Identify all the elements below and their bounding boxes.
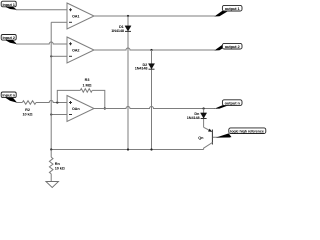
node OA2 - on bus: [50, 55, 52, 57]
node D2 bottom: [150, 148, 152, 150]
wire OA2 - stub: [51, 55, 67, 57]
wire input1 to OA1 +: [16, 9, 67, 11]
resistor Rn 10 k: [49, 150, 64, 182]
svg-text:10 kΩ: 10 kΩ: [23, 113, 33, 117]
resistor R3 1 M feedback: [57, 78, 105, 108]
svg-text:R2: R2: [25, 108, 30, 112]
node D1 bottom: [127, 148, 129, 150]
diode D1 1N4148: [111, 16, 131, 150]
svg-text:1N4148: 1N4148: [111, 29, 124, 33]
svg-text:OA2: OA2: [72, 49, 80, 53]
transistor Qn: [198, 127, 230, 149]
diode Dn 1N4148: [187, 109, 207, 128]
callout logic high reference: [216, 128, 266, 138]
svg-text:input n: input n: [2, 93, 15, 98]
node D1 top: [127, 15, 129, 17]
bottom bus wire: [51, 149, 203, 151]
node D2 top: [150, 49, 152, 51]
wire input n to R2: [16, 102, 22, 104]
svg-text:output n: output n: [225, 101, 241, 106]
callout input n: [1, 92, 17, 103]
svg-text:Rn: Rn: [55, 162, 61, 166]
callout output 2: [214, 43, 242, 50]
wire OA2 output to output 2 (hop over D1 line): [94, 48, 215, 50]
svg-text:output 1: output 1: [225, 6, 241, 11]
op-amp OA1: [67, 3, 94, 29]
svg-text:R3: R3: [85, 78, 90, 82]
svg-text:1N4148: 1N4148: [187, 116, 200, 120]
svg-text:1N4148: 1N4148: [135, 67, 148, 71]
wire OA1 output to output 1: [94, 15, 215, 17]
bus (inverting inputs common node): [50, 22, 52, 149]
diode D2 1N4148: [135, 50, 155, 150]
node feedback junction on + wire: [56, 101, 58, 103]
svg-text:logic high reference: logic high reference: [230, 129, 264, 134]
op-amp OA2: [67, 37, 94, 63]
svg-text:input 2: input 2: [2, 35, 15, 40]
svg-text:Qn: Qn: [198, 136, 204, 140]
callout output 1: [214, 5, 242, 16]
svg-text:OAn: OAn: [72, 107, 80, 111]
wire R2 to OAn + (hop over bus): [36, 101, 67, 103]
node OAn - on bus: [50, 113, 52, 115]
node OAn output / feedback: [104, 107, 106, 109]
callout input 2: [1, 35, 17, 45]
svg-text:output 2: output 2: [225, 44, 241, 49]
op-amp OAn: [67, 96, 94, 122]
ground: [46, 182, 59, 188]
svg-text:10 kΩ: 10 kΩ: [55, 167, 65, 171]
svg-text:1 MΩ: 1 MΩ: [83, 83, 92, 87]
wire OA1 - stub: [51, 21, 67, 23]
wire OAn - stub: [51, 114, 67, 116]
wire OAn output to output n (hops over D1 and D2 lines): [94, 107, 215, 109]
svg-text:OA1: OA1: [72, 15, 80, 19]
node Dn top: [203, 107, 205, 109]
resistor R2 10 k: [22, 101, 36, 117]
callout input 1: [1, 1, 17, 10]
svg-text:input 1: input 1: [2, 2, 15, 7]
wire input2 to OA2 + (hop over bus): [16, 42, 67, 44]
node bus / Rn: [50, 148, 52, 150]
callout output n: [214, 100, 242, 109]
